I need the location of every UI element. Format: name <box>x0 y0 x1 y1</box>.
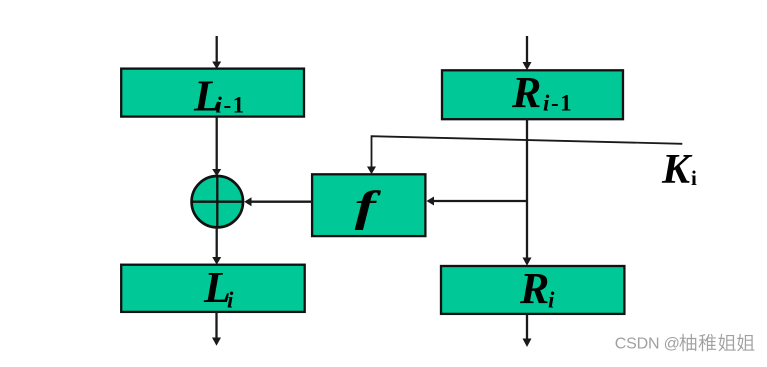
label K(i) <box>661 147 697 193</box>
XOR node <box>191 176 245 227</box>
svg-text:i: i <box>543 91 550 116</box>
block L(i) <box>121 263 305 312</box>
wire: input arrow into block L(i-1) <box>212 36 221 69</box>
block L(i-1) <box>121 69 304 121</box>
wire: subkey K(i) line into f <box>367 136 682 174</box>
block f <box>312 174 425 236</box>
wire: L(i-1) to XOR <box>212 117 221 177</box>
block R(i-1) <box>442 68 623 119</box>
svg-text:R: R <box>519 264 549 313</box>
svg-text:i: i <box>216 93 223 118</box>
svg-text:R: R <box>511 68 541 117</box>
wire: XOR to block L(i) <box>212 227 221 264</box>
svg-text:-1: -1 <box>551 91 573 116</box>
svg-text:i: i <box>548 288 555 313</box>
svg-text:-1: -1 <box>224 93 246 118</box>
svg-text:K: K <box>661 147 693 193</box>
wire: input arrow into block R(i-1) <box>523 36 532 70</box>
wire: output arrow from block L(i) <box>212 312 221 346</box>
wire: R(i-1) down to block R(i) with junction <box>523 119 532 266</box>
svg-text:CSDN @: CSDN @ <box>615 336 680 353</box>
wire: output arrow from block R(i) <box>523 314 532 347</box>
watermark CSDN @柚稚姐姐 <box>615 334 755 353</box>
wire: junction to f input <box>427 197 528 206</box>
wire: f output to XOR <box>244 197 312 206</box>
svg-text:i: i <box>691 166 697 190</box>
svg-text:i: i <box>227 288 234 313</box>
block R(i) <box>441 264 624 314</box>
